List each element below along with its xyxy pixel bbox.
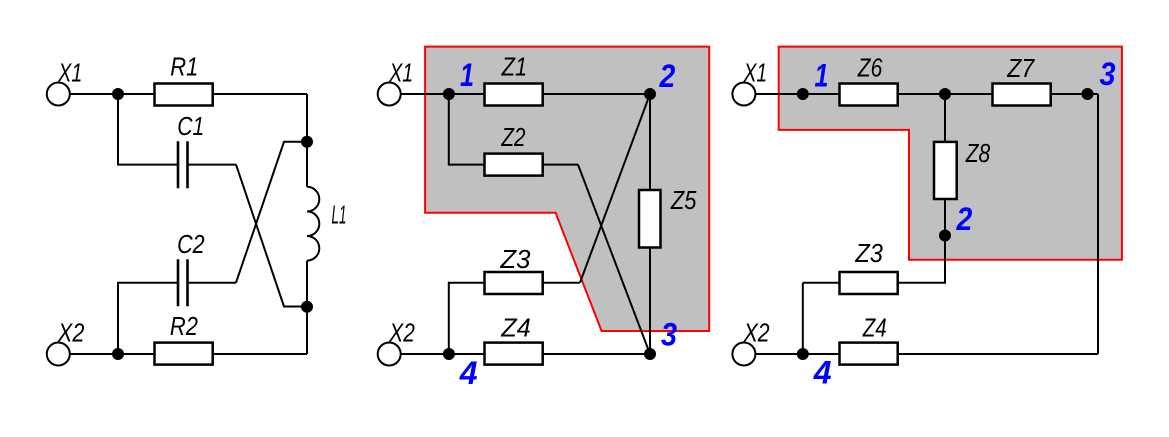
- svg-text:Z3: Z3: [854, 238, 883, 268]
- svg-text:1: 1: [815, 58, 829, 94]
- svg-text:Z6: Z6: [857, 53, 883, 83]
- svg-text:X2: X2: [388, 317, 415, 347]
- svg-text:X1: X1: [58, 58, 83, 88]
- svg-text:Z1: Z1: [501, 52, 527, 82]
- svg-text:X2: X2: [743, 317, 770, 347]
- svg-text:X1: X1: [388, 58, 413, 88]
- svg-text:X1: X1: [743, 57, 767, 87]
- svg-text:2: 2: [659, 58, 676, 94]
- svg-text:R1: R1: [170, 51, 198, 81]
- svg-text:L1: L1: [332, 199, 347, 229]
- svg-text:3: 3: [1100, 56, 1116, 92]
- svg-text:4: 4: [459, 355, 478, 391]
- svg-text:Z2: Z2: [501, 122, 526, 152]
- svg-text:Z7: Z7: [1006, 53, 1035, 83]
- svg-text:3: 3: [661, 317, 677, 353]
- svg-text:2: 2: [956, 201, 973, 237]
- svg-text:C2: C2: [177, 229, 205, 259]
- svg-text:C1: C1: [177, 111, 204, 141]
- svg-text:Z8: Z8: [965, 138, 991, 168]
- svg-text:Z3: Z3: [499, 244, 531, 274]
- svg-text:4: 4: [813, 355, 832, 391]
- svg-text:Z4: Z4: [862, 313, 887, 343]
- svg-text:1: 1: [460, 57, 474, 93]
- svg-text:Z4: Z4: [500, 313, 530, 343]
- svg-text:Z5: Z5: [670, 185, 697, 215]
- svg-text:X2: X2: [57, 317, 85, 347]
- svg-text:R2: R2: [170, 311, 198, 341]
